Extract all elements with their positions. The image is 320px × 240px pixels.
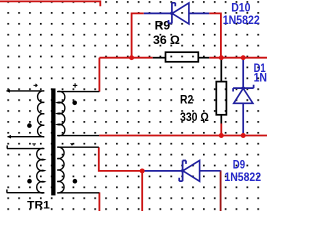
wire: R2 bottom red segment to rail2	[220, 124, 222, 136]
wire: left vertical from node A down to transformer secondary top lead	[98, 58, 100, 92]
resistor R2 bottom lead	[220, 115, 222, 124]
polarity dot primary winding 2	[27, 179, 32, 184]
pin tick on primary winding 2 top lead	[6, 145, 8, 148]
diode D9 schottky cathode bar	[179, 161, 186, 182]
diode D10 triangle	[172, 3, 189, 24]
pin arrow on primary winding 1 bottom lead	[7, 135, 11, 139]
diode D10 cathode lead	[144, 12, 172, 14]
wire: D9 junction drop to bottom edge	[141, 171, 143, 211]
pin tick on primary winding 2 bottom lead	[6, 190, 8, 193]
transformer TR1 primary winding 1 (coil with leads and arrow pins)	[7, 91, 45, 137]
diode D9 apex node square	[181, 169, 184, 172]
wire: rail1 right segment (R9 right lead to right edge)	[209, 57, 267, 59]
junction J4 dot (R2 bottom)	[219, 133, 224, 138]
winding sense mark above secondary winding 2	[70, 143, 74, 145]
wire: J1 up and over to D10 cathode lead	[132, 13, 144, 57]
resistor R2 body	[216, 82, 226, 115]
wire: D9 anode corner drop to bottom edge	[220, 170, 222, 211]
diode D1 anode lead	[242, 103, 244, 135]
polarity dot secondary winding 1	[72, 101, 77, 106]
winding sense mark above primary winding 1	[34, 84, 38, 87]
diode D10 apex node square	[171, 12, 174, 15]
svg-text:1N5822: 1N5822	[254, 70, 267, 84]
pin arrow on primary winding 1 top lead	[6, 89, 10, 93]
diode D1 triangle	[234, 88, 253, 103]
diode D10 schottky cathode bar	[169, 3, 176, 24]
junction J1 dot	[129, 55, 134, 60]
resistor R9 body	[166, 52, 199, 62]
transformer TR1 primary winding 2 (coil with leads)	[7, 148, 45, 193]
diode D10 anode lead	[189, 12, 209, 14]
junction J2 dot	[219, 55, 224, 60]
polarity dot secondary winding 2	[73, 179, 78, 184]
polarity dot primary winding 1	[27, 123, 32, 128]
grid dots	[0, 0, 267, 211]
diode D1 apex node square	[242, 87, 245, 90]
resistor R9 right lead	[198, 57, 209, 59]
diode D9 triangle	[183, 160, 200, 181]
junction J3 dot	[241, 55, 246, 60]
diode D9 cathode lead	[142, 170, 182, 172]
diode D9 anode lead	[200, 170, 221, 172]
svg-text:R2: R2	[180, 93, 193, 107]
transformer TR1 secondary winding 2 (coil with leads)	[57, 147, 99, 193]
wire: secondary lower winding top lead drop to D9 rail	[99, 147, 142, 171]
wire: rail2 bottom red rail	[99, 135, 267, 137]
diode D1 cathode lead from junction J3	[242, 58, 244, 88]
wire: secondary lower winding bottom lead drop to bottom edge	[98, 192, 100, 211]
svg-text:TR1: TR1	[27, 200, 50, 211]
winding sense mark above secondary winding 1	[73, 83, 77, 87]
diode D1 schottky cathode bar	[233, 85, 254, 92]
wire: top-left horizontal rail with short down stub	[0, 1, 100, 6]
winding sense mark above primary winding 2	[32, 144, 36, 146]
transformer TR1 core	[51, 88, 55, 195]
junction J5 dot (D1 anode)	[241, 133, 246, 138]
resistor R2 top lead	[220, 58, 222, 82]
svg-text:36 Ω: 36 Ω	[153, 33, 180, 47]
resistor R9 left lead	[153, 57, 166, 59]
svg-text:1N5822: 1N5822	[223, 13, 260, 27]
svg-text:330 Ω: 330 Ω	[180, 110, 209, 124]
transformer TR1 secondary winding 1 (coil with leads)	[57, 91, 99, 136]
wire: D10 anode to corner down to junction J2	[209, 13, 221, 57]
svg-text:1N5822: 1N5822	[224, 170, 261, 184]
junction J6 dot (D9 rail)	[140, 168, 145, 173]
wire: rail1 left segment (node A to junction J1)	[99, 57, 152, 59]
